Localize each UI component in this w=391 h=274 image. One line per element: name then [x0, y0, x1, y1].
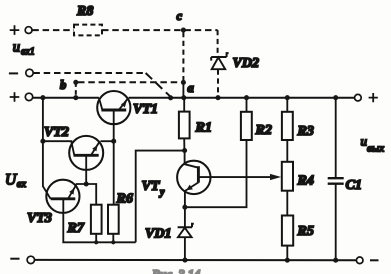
terminal + input main (third row) [25, 93, 32, 100]
transistor VT1 (pass transistor in rail) [97, 91, 130, 124]
diode VD1 (zener reference) [178, 224, 194, 238]
wire dashed diagonal from aux - line down to rail [146, 73, 171, 97]
wire VT2 collector branch [43, 140, 72, 142]
wire main + rail left portion (input to VT1 collector) [33, 97, 99, 99]
resistor R3 [282, 112, 293, 140]
terminal + input aux top-left [25, 27, 32, 34]
wire main + rail right portion (VT1 emitter to + output) [129, 97, 355, 99]
wire R2 top lead [246, 98, 248, 112]
junction dot a stub / R1 on rail [181, 95, 186, 100]
svg-text:VT: VT [142, 179, 161, 194]
svg-text:VT1: VT1 [133, 102, 158, 117]
wire dashed from aux - terminal rightwards [33, 72, 145, 74]
svg-text:R4: R4 [297, 174, 314, 189]
svg-text:R3: R3 [297, 124, 314, 139]
svg-text:вх: вх [17, 179, 27, 190]
node c junction dot and label [181, 28, 186, 33]
wire dashed from R8 to corner above VD2 [102, 29, 218, 31]
resistor R8 (dashed outline) [74, 25, 102, 36]
wire R2 bottom down and left to VTy emitter node [187, 140, 247, 207]
junction dot VD1 on - rail [182, 258, 187, 263]
junction dot VTy emitter / R2 return [182, 205, 187, 210]
junction dot R1 bottom / VTy collector [182, 148, 187, 153]
svg-text:u: u [13, 40, 20, 56]
junction dot R3 top [285, 95, 290, 100]
junction dot C1 top [333, 95, 338, 100]
diode VD2 (zener) [211, 53, 228, 69]
svg-text:R1: R1 [195, 121, 212, 136]
wire R3 top lead [286, 98, 288, 112]
svg-text:VT2: VT2 [44, 125, 69, 140]
svg-text:R2: R2 [255, 123, 272, 138]
svg-text:c: c [177, 9, 183, 23]
wire VT3 base down and right along lower bus [63, 199, 135, 243]
junction dot VT2 collector branch [40, 139, 45, 144]
junction dot VT1 base / VT2 emitter [111, 139, 116, 144]
capacitor C1 [328, 98, 344, 261]
wire bus up to VTy collector node [136, 151, 185, 243]
junction dot C1 on - rail [333, 258, 338, 263]
terminal - output bottom-right [356, 257, 363, 264]
wire VT2 base down to VT3 emitter wire [85, 155, 87, 184]
terminal + output top-right [355, 94, 362, 101]
junction dot diagonal to rail [168, 95, 173, 100]
svg-text:R6: R6 [116, 192, 133, 207]
wire left vertical from rail down to VT3 collector [43, 98, 51, 199]
wire - rail bottom [35, 259, 357, 261]
resistor R1 [179, 112, 190, 139]
resistor R5 [282, 216, 293, 246]
wire dashed from b to a [78, 81, 181, 83]
junction dot R7 on bus [94, 240, 98, 244]
wire dashed stub from b down to rail [75, 82, 77, 96]
wire dashed vertical from c down to node a [182, 32, 184, 81]
wire VTy base to R4 wiper with arrow [198, 176, 274, 178]
wire VT2 emitter to VT1 base node [101, 140, 114, 142]
resistor R4 (potentiometer) [282, 162, 293, 191]
wire VD1 bottom to - rail [184, 237, 186, 260]
wire VT1 base down to VT2 emitter node and R6 [113, 110, 115, 205]
wire R3 bottom to R4 top [286, 140, 288, 162]
wire VT3 emitter right to R7 top corner [77, 184, 97, 205]
wire solid from a down to rail [182, 82, 184, 97]
wire R5 bottom to - rail [286, 246, 288, 261]
svg-text:b: b [60, 78, 66, 92]
wire R6 bottom to bus [112, 234, 114, 243]
svg-text:VD1: VD1 [145, 227, 171, 242]
junction dot R6 on bus [111, 240, 115, 244]
transistor VT3 [46, 180, 79, 213]
resistor R2 [241, 112, 252, 140]
wire dashed from VD2 down to + rail [217, 70, 219, 96]
terminal - input aux (second row) [26, 69, 33, 76]
wire VTy emitter down to VD1 [184, 191, 186, 227]
resistor R6 [108, 205, 119, 234]
svg-text:у: у [159, 187, 165, 198]
transistor VTy (error amplifier) [177, 151, 210, 195]
resistor R7 [91, 205, 102, 234]
svg-text:R5: R5 [297, 224, 314, 239]
svg-text:вх1: вх1 [21, 47, 35, 58]
wire R1 bottom lead [183, 138, 185, 150]
junction dot rail to left vertical [40, 95, 45, 100]
wire R1 top lead [183, 98, 185, 112]
svg-text:VD2: VD2 [233, 56, 259, 71]
wire R7 bottom to bus [95, 234, 97, 243]
svg-text:вых: вых [367, 143, 384, 155]
wire dashed from aux + terminal to R8 [32, 29, 74, 31]
junction dot R2 top [244, 95, 249, 100]
junction dot R5 on - rail [285, 258, 290, 263]
svg-text:R7: R7 [67, 221, 85, 236]
svg-text:C1: C1 [346, 178, 362, 193]
junction dot VD2 to rail [215, 95, 220, 100]
wire R4 bottom to R5 top [286, 191, 288, 216]
junction dot VT2 base / VT3 emitter [84, 181, 89, 186]
wire dashed vertical corner down to VD2 [217, 30, 219, 54]
svg-text:a: a [188, 81, 194, 95]
node b dot and label [73, 80, 78, 85]
svg-text:VT3: VT3 [27, 211, 52, 226]
transistor VT2 [69, 136, 103, 170]
node a dot and label [181, 80, 186, 85]
junction dot b stub on rail [73, 95, 78, 100]
svg-text:Рис. 3.14: Рис. 3.14 [152, 268, 200, 274]
svg-text:R8: R8 [76, 4, 93, 19]
terminal - input bottom-left [27, 256, 34, 263]
